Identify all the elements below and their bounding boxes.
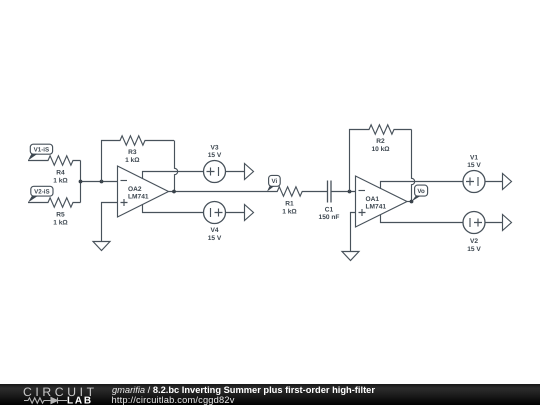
wire V1 to supply arrow xyxy=(485,181,502,183)
supply arrow after V1 xyxy=(503,174,512,190)
OA2 V- power pin wire xyxy=(143,204,204,213)
svg-text:15 V: 15 V xyxy=(208,235,222,242)
junction dot at OA1 output node xyxy=(410,200,414,204)
net flag Vi xyxy=(267,175,280,191)
svg-text:1 kΩ: 1 kΩ xyxy=(282,209,297,216)
supply arrow after V3 xyxy=(245,164,254,180)
voltage source V4 xyxy=(204,202,226,242)
svg-text:Vi: Vi xyxy=(272,178,278,185)
svg-text:15 V: 15 V xyxy=(208,152,222,159)
svg-text:V1: V1 xyxy=(470,154,478,161)
svg-text:Vo: Vo xyxy=(417,188,425,195)
supply arrow after V2 xyxy=(503,215,512,231)
op-amp OA1 LM741 xyxy=(356,176,408,227)
wire R2 right down to OA1 output with hop xyxy=(412,130,415,202)
footer line 1 xyxy=(112,385,375,395)
CircuitLab logo xyxy=(0,378,110,405)
footer bar xyxy=(0,384,540,405)
wire V3 to supply arrow xyxy=(226,171,245,173)
OA1 V- power pin wire xyxy=(381,215,464,223)
svg-text:R2: R2 xyxy=(376,138,385,145)
ground at OA1 xyxy=(342,252,359,261)
OA2 V+ power pin wire xyxy=(143,172,204,180)
svg-text:OA1: OA1 xyxy=(366,196,380,203)
junction dot at summing node xyxy=(79,180,83,184)
wire C1 to OA1 inverting input xyxy=(331,191,356,193)
svg-text:15 V: 15 V xyxy=(467,246,481,253)
svg-text:R1: R1 xyxy=(285,201,294,208)
svg-text:V1-iS: V1-iS xyxy=(34,147,49,154)
OA2 non-inverting input wire to ground xyxy=(102,203,118,242)
svg-text:1 kΩ: 1 kΩ xyxy=(53,178,68,185)
junction dot at OA2 feedback node xyxy=(172,190,176,194)
svg-text:R5: R5 xyxy=(56,212,65,219)
junction dot at R3 tap xyxy=(100,180,104,184)
svg-text:15 V: 15 V xyxy=(467,162,481,169)
svg-text:LM741: LM741 xyxy=(366,203,387,210)
net flag V2-iS xyxy=(28,186,53,202)
svg-text:LAB: LAB xyxy=(67,396,93,405)
voltage source V2 xyxy=(463,212,485,253)
net flag V1-iS xyxy=(28,144,53,160)
op-amp OA2 LM741 xyxy=(118,166,169,217)
svg-text:OA2: OA2 xyxy=(128,186,142,193)
svg-text:C1: C1 xyxy=(325,206,334,213)
svg-text:150 nF: 150 nF xyxy=(319,214,340,221)
voltage source V3 xyxy=(204,144,226,182)
wire summing node to OA2 inverting input xyxy=(81,181,118,183)
svg-text:V2-iS: V2-iS xyxy=(34,189,49,196)
resistor R3 xyxy=(102,136,175,182)
wire R3 right down to OA2 output with hop xyxy=(175,141,178,192)
voltage source V1 xyxy=(463,154,485,192)
wire V2 to supply arrow xyxy=(485,222,502,224)
svg-text:10 kΩ: 10 kΩ xyxy=(371,146,390,153)
resistor R4 xyxy=(28,156,81,185)
svg-text:V4: V4 xyxy=(210,227,218,234)
svg-text:LM741: LM741 xyxy=(128,193,149,200)
svg-text:1 kΩ: 1 kΩ xyxy=(53,220,68,227)
footer line 2 xyxy=(112,395,235,405)
svg-text:V2: V2 xyxy=(470,238,478,245)
wire R5 up to summing node xyxy=(80,182,82,203)
svg-text:R3: R3 xyxy=(128,149,137,156)
svg-text:V3: V3 xyxy=(210,144,218,151)
resistor R1 xyxy=(267,187,328,216)
wire OA1 output to node xyxy=(407,201,412,203)
resistor R5 xyxy=(28,198,81,227)
svg-text:R4: R4 xyxy=(56,170,65,177)
wire V4 to supply arrow xyxy=(226,212,245,214)
svg-text:1 kΩ: 1 kΩ xyxy=(125,157,140,164)
ground at OA2 xyxy=(93,242,110,251)
OA1 non-inverting input wire to ground xyxy=(351,213,356,252)
net flag Vo xyxy=(412,185,428,201)
OA1 V+ power pin wire xyxy=(381,182,464,190)
capacitor C1 xyxy=(319,181,340,221)
resistor R2 xyxy=(350,125,412,192)
supply arrow after V4 xyxy=(245,205,254,221)
wire OA2 output to R1 xyxy=(169,191,268,193)
wire R4 down to summing node xyxy=(80,161,82,182)
junction dot at C1/R2 node xyxy=(348,190,352,194)
